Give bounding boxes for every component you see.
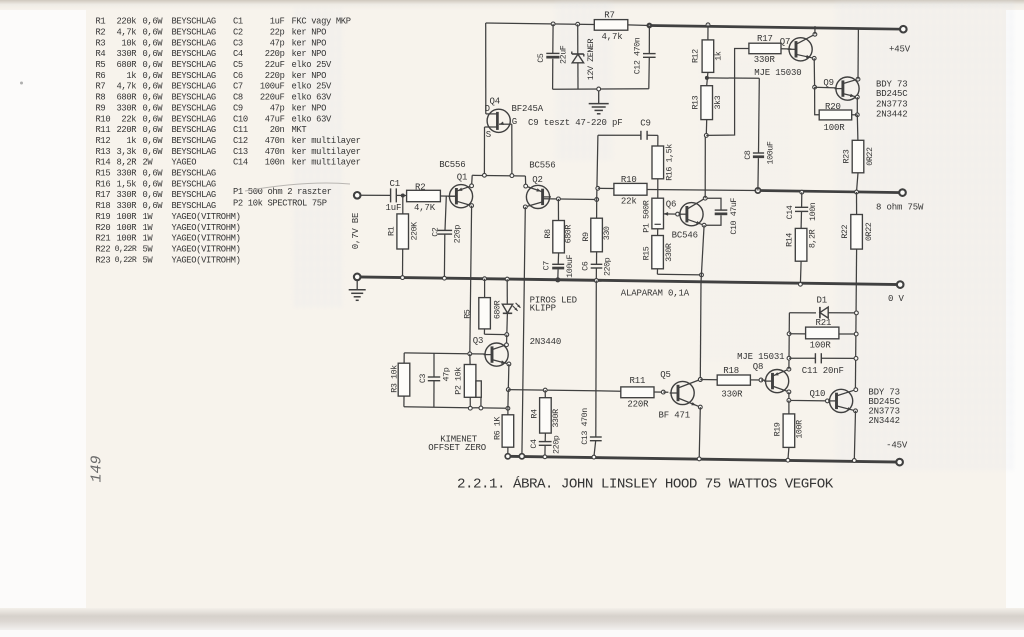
svg-text:C1: C1 — [390, 179, 401, 189]
svg-text:Q2: Q2 — [532, 175, 543, 185]
svg-text:elko 25V: elko 25V — [292, 60, 333, 70]
svg-text:R16 1,5k: R16 1,5k — [664, 144, 674, 181]
wire R5 bottom to LED node — [484, 333, 506, 335]
svg-text:R18: R18 — [723, 366, 739, 376]
svg-text:100R: 100R — [824, 123, 846, 133]
wire C9 to R16 — [647, 134, 658, 136]
transistor Q10 BDY73 — [830, 389, 853, 412]
resistor R5 — [484, 279, 486, 298]
junction R21 right — [854, 332, 858, 336]
svg-text:1,5k: 1,5k — [116, 179, 136, 189]
svg-text:220p: 220p — [551, 435, 561, 454]
svg-text:Q5: Q5 — [660, 370, 671, 380]
svg-text:R14: R14 — [784, 233, 794, 247]
potentiometer P1 500R — [652, 198, 664, 229]
svg-text:BEYSCHLAG: BEYSCHLAG — [172, 103, 216, 113]
diode D1 — [789, 312, 816, 314]
svg-text:R6 1K: R6 1K — [493, 416, 503, 440]
svg-text:BC546: BC546 — [672, 230, 698, 240]
svg-text:330R: 330R — [116, 201, 137, 211]
svg-text:elko 63V: elko 63V — [292, 93, 333, 103]
svg-text:BEYSCHLAG: BEYSCHLAG — [172, 136, 216, 146]
capacitor C13 — [595, 281, 598, 438]
junction R6 top — [506, 406, 510, 410]
svg-text:4,7k: 4,7k — [116, 27, 136, 37]
svg-text:8 ohm 75W: 8 ohm 75W — [876, 203, 924, 213]
svg-text:BEYSCHLAG: BEYSCHLAG — [172, 179, 216, 189]
ground terminal left — [354, 274, 361, 281]
resistor R22 — [856, 192, 858, 215]
svg-text:C8: C8 — [743, 150, 753, 160]
svg-text:330: 330 — [602, 226, 612, 240]
junction feedback node — [595, 198, 599, 202]
svg-text:BEYSCHLAG: BEYSCHLAG — [172, 93, 216, 103]
junction ground stub — [597, 87, 601, 91]
svg-text:BEYSCHLAG: BEYSCHLAG — [172, 114, 216, 124]
wire zener bottom — [553, 88, 649, 91]
svg-text:C8: C8 — [233, 93, 243, 103]
junction R12/R13/C8 — [705, 76, 709, 80]
junction R8 top — [557, 197, 561, 201]
capacitor C9 — [640, 131, 642, 140]
svg-text:100uF: 100uF — [765, 141, 775, 164]
svg-text:C9 teszt 47-220 pF: C9 teszt 47-220 pF — [528, 118, 623, 128]
svg-text:C12: C12 — [233, 136, 248, 146]
svg-text:D: D — [485, 104, 490, 114]
svg-text:R19: R19 — [772, 422, 782, 436]
wire Q3 emitter down — [507, 364, 510, 390]
svg-text:C12 470n: C12 470n — [632, 37, 642, 74]
resistor R7 — [594, 20, 628, 31]
svg-text:100n: 100n — [265, 158, 285, 168]
wire R17 left to R13 node — [706, 49, 749, 136]
svg-text:C2: C2 — [233, 27, 243, 37]
svg-text:2N3773: 2N3773 — [876, 99, 908, 109]
svg-text:5W: 5W — [143, 255, 154, 265]
svg-text:OFFSET ZERO: OFFSET ZERO — [428, 443, 486, 453]
svg-text:4,7k: 4,7k — [116, 82, 136, 92]
wire R13 bottom — [705, 120, 707, 136]
terminal -45V — [896, 459, 903, 466]
wire Q7 emitter down — [813, 58, 815, 87]
svg-text:22uF: 22uF — [559, 45, 569, 64]
svg-text:47uF: 47uF — [265, 114, 285, 124]
wire Q4 source down — [483, 127, 485, 175]
wire Q1 collector down to Q3 base — [470, 206, 472, 354]
svg-text:R2: R2 — [415, 182, 426, 192]
svg-text:R22: R22 — [840, 225, 850, 239]
junction R19/-45V rail — [786, 458, 790, 462]
svg-text:R10: R10 — [621, 175, 637, 185]
svg-text:0,6W: 0,6W — [143, 93, 164, 103]
junction zener top — [576, 22, 580, 26]
svg-text:R10: R10 — [96, 114, 111, 124]
svg-text:R6: R6 — [96, 71, 106, 81]
svg-text:330R: 330R — [116, 49, 137, 59]
svg-text:ker multilayer: ker multilayer — [292, 136, 361, 146]
junction C12/+45 rail — [647, 23, 653, 29]
svg-text:0,7V BE: 0,7V BE — [351, 213, 361, 249]
wire input to C1 — [361, 194, 391, 196]
svg-text:Q1: Q1 — [457, 172, 468, 182]
wire R7 to rail node — [628, 24, 650, 27]
resistor R8 — [557, 199, 559, 221]
svg-text:R13: R13 — [691, 95, 701, 109]
wire Q10 emitter to -45V rail — [854, 411, 855, 461]
svg-text:G: G — [512, 117, 517, 127]
svg-text:R4: R4 — [530, 409, 540, 419]
wire Q6 emitter down crossing 0V — [701, 225, 704, 282]
svg-text:1uF: 1uF — [270, 17, 285, 27]
junction C14/output rail — [800, 190, 804, 194]
svg-text:BEYSCHLAG: BEYSCHLAG — [172, 125, 216, 135]
junction Q3 emitter node — [506, 388, 510, 392]
ground symbol under input rail — [356, 280, 358, 289]
wire Q9 collector to +45 rail — [857, 29, 859, 80]
svg-text:330R: 330R — [116, 190, 137, 200]
svg-text:ker NPO: ker NPO — [292, 49, 327, 59]
svg-text:BEYSCHLAG: BEYSCHLAG — [172, 60, 216, 70]
svg-text:MJE 15030: MJE 15030 — [754, 68, 801, 78]
svg-text:R3: R3 — [96, 38, 106, 48]
svg-text:BDY 73: BDY 73 — [876, 79, 908, 89]
svg-text:R9: R9 — [581, 232, 591, 242]
svg-text:C4: C4 — [233, 49, 243, 59]
wire to C9 — [598, 134, 641, 136]
svg-text:BD245C: BD245C — [868, 397, 900, 407]
svg-text:BEYSCHLAG: BEYSCHLAG — [172, 38, 216, 48]
wire to Q1 emitter — [471, 175, 474, 186]
wire R11 to Q5 base — [654, 391, 663, 393]
svg-text:-45V: -45V — [886, 440, 908, 450]
svg-text:D1: D1 — [817, 295, 828, 305]
svg-text:C11 20nF: C11 20nF — [802, 366, 844, 376]
svg-text:R11: R11 — [630, 376, 646, 386]
junction R1/0V rail — [401, 276, 405, 280]
junction R14/0V rail — [799, 282, 803, 286]
svg-text:MJE 15031: MJE 15031 — [737, 352, 784, 362]
capacitor C7 — [557, 253, 559, 264]
junction LED/0V rail — [505, 277, 509, 281]
svg-text:R7: R7 — [604, 10, 615, 20]
resistor R16 — [652, 146, 664, 179]
svg-text:Q8: Q8 — [753, 362, 764, 372]
resistor R4 — [544, 390, 546, 398]
svg-text:C3: C3 — [418, 374, 428, 384]
svg-text:680R: 680R — [116, 93, 137, 103]
terminal +45V — [900, 26, 907, 33]
svg-text:220p: 220p — [602, 257, 612, 276]
svg-text:5W: 5W — [143, 244, 154, 254]
svg-text:P1 500R: P1 500R — [642, 200, 652, 232]
junction C4/-45V rail — [543, 455, 547, 459]
svg-text:R13: R13 — [96, 147, 111, 157]
svg-text:Q4: Q4 — [490, 96, 501, 106]
capacitor C8 — [758, 78, 761, 153]
svg-text:R12: R12 — [691, 49, 701, 63]
svg-text:330R: 330R — [721, 389, 743, 399]
wire to Q3 collector — [506, 335, 508, 345]
svg-text:0,6W: 0,6W — [143, 82, 164, 92]
capacitor C12 — [648, 26, 650, 54]
wire Q2 base to feedback node — [543, 198, 597, 201]
svg-text:ker NPO: ker NPO — [292, 38, 327, 48]
junction R5/0V rail — [483, 277, 487, 281]
svg-text:0R22: 0R22 — [865, 147, 875, 166]
wire down to R23 — [856, 115, 859, 141]
svg-text:BEYSCHLAG: BEYSCHLAG — [172, 17, 216, 27]
wire R17 to Q7 base — [781, 48, 791, 50]
wire Q3 base — [404, 353, 485, 354]
svg-text:KLIPP: KLIPP — [530, 303, 556, 313]
svg-text:R8: R8 — [543, 229, 553, 239]
svg-text:Q3: Q3 — [473, 336, 484, 346]
junction R6/-45V rail left end — [505, 454, 510, 459]
svg-text:R7: R7 — [96, 82, 106, 92]
svg-text:2N3440: 2N3440 — [530, 337, 562, 347]
capacitor C14 — [801, 192, 803, 207]
svg-text:1k: 1k — [126, 71, 136, 81]
transistor Q2 BC556 — [526, 185, 549, 208]
wire C1 to R2 — [396, 194, 406, 196]
wire down to R20 left — [815, 87, 820, 115]
svg-text:220R: 220R — [627, 399, 649, 409]
junction R20 right — [855, 113, 859, 117]
svg-text:R16: R16 — [96, 179, 111, 189]
svg-text:220k: 220k — [116, 17, 136, 27]
svg-text:C9: C9 — [233, 103, 243, 113]
wire Q3 emitter to R11 — [508, 390, 621, 392]
input terminal 0,7V BE — [354, 192, 361, 199]
terminal 8 ohm 75W — [899, 189, 906, 196]
capacitor C1 — [390, 188, 392, 202]
junction R1 top — [401, 194, 405, 198]
svg-text:22k: 22k — [621, 196, 637, 206]
svg-text:680R: 680R — [116, 60, 137, 70]
junction R4 top — [543, 388, 547, 392]
transistor Q4 BF245A (JFET) — [487, 109, 510, 132]
svg-text:R4: R4 — [96, 49, 106, 59]
svg-text:220R: 220R — [116, 125, 137, 135]
svg-text:Q7: Q7 — [780, 37, 791, 47]
show-through — [292, 0, 1014, 470]
svg-text:R21: R21 — [816, 318, 832, 328]
svg-text:0,6W: 0,6W — [143, 169, 164, 179]
svg-text:47p: 47p — [270, 103, 285, 113]
svg-text:2N3442: 2N3442 — [876, 110, 908, 120]
svg-text:10k: 10k — [121, 38, 136, 48]
transistor Q9 BDY73 — [836, 77, 859, 100]
capacitor C3 — [433, 353, 435, 377]
svg-text:BC556: BC556 — [439, 160, 465, 170]
svg-text:20n: 20n — [270, 125, 285, 135]
svg-text:ker NPO: ker NPO — [292, 71, 327, 81]
svg-text:BEYSCHLAG: BEYSCHLAG — [172, 169, 216, 179]
wire Q7 collector to +45 rail — [814, 26, 816, 34]
svg-text:R20: R20 — [825, 102, 841, 112]
svg-text:100R: 100R — [810, 340, 832, 350]
svg-text:22uF: 22uF — [265, 60, 285, 70]
svg-text:YAGEO(VITROHM): YAGEO(VITROHM) — [172, 234, 241, 244]
transistor Q7 MJE15030 — [789, 38, 812, 61]
junction D1/R22-Q10 line — [855, 311, 859, 315]
resistor R23 — [852, 140, 864, 173]
svg-text:R21: R21 — [96, 234, 111, 244]
wire Q4 gate down — [511, 124, 513, 175]
wire Q4 drain — [485, 23, 487, 114]
svg-text:C7: C7 — [542, 261, 552, 271]
svg-text:R11: R11 — [96, 125, 111, 135]
wire to Q2 emitter — [524, 176, 526, 186]
svg-text:0,6W: 0,6W — [143, 147, 164, 157]
svg-text:100R: 100R — [116, 212, 137, 222]
svg-text:ker NPO: ker NPO — [292, 103, 327, 113]
svg-text:MKT: MKT — [292, 125, 307, 135]
svg-text:4,7K: 4,7K — [414, 203, 436, 213]
svg-text:R15: R15 — [641, 246, 651, 260]
capacitor C10 — [707, 198, 721, 210]
svg-text:C7: C7 — [233, 82, 243, 92]
terminal 0V — [897, 281, 904, 288]
svg-text:2N3442: 2N3442 — [868, 416, 900, 426]
junction R19 top — [787, 399, 791, 403]
wire to Q9 base — [815, 86, 836, 89]
svg-text:C5: C5 — [233, 60, 243, 70]
svg-text:0,6W: 0,6W — [143, 27, 164, 37]
svg-text:C1: C1 — [233, 17, 243, 27]
svg-text:220uF: 220uF — [260, 93, 285, 103]
svg-text:100R: 100R — [116, 234, 137, 244]
wire R16 to P1 crossing output line — [657, 179, 659, 198]
svg-text:R8: R8 — [96, 93, 106, 103]
resistor R20 — [819, 110, 852, 120]
resistor R9 — [596, 200, 598, 219]
capacitor C4 — [544, 433, 546, 442]
resistor R2 — [407, 190, 441, 201]
svg-text:2.2.1. ÁBRA. JOHN LINSLEY HOOD: 2.2.1. ÁBRA. JOHN LINSLEY HOOD 75 WATTOS… — [457, 474, 834, 492]
svg-text:1uF: 1uF — [386, 203, 402, 213]
svg-text:C3: C3 — [233, 38, 243, 48]
svg-text:BEYSCHLAG: BEYSCHLAG — [172, 147, 216, 157]
svg-text:330R: 330R — [116, 103, 137, 113]
wire Q8 emitter to Q10 base — [789, 392, 828, 401]
svg-text:100R: 100R — [795, 420, 805, 439]
svg-text:ker NPO: ker NPO — [292, 27, 327, 37]
junction Q1 collector/P2/base — [468, 352, 472, 356]
svg-text:R2: R2 — [96, 27, 106, 37]
svg-text:YAGEO(VITROHM): YAGEO(VITROHM) — [172, 223, 241, 233]
svg-text:0R22: 0R22 — [864, 222, 874, 241]
svg-text:BEYSCHLAG: BEYSCHLAG — [172, 49, 216, 59]
svg-text:R22: R22 — [96, 244, 111, 254]
transistor Q3 2N3440 — [485, 343, 508, 366]
svg-text:100uF: 100uF — [565, 255, 575, 278]
svg-text:220p: 220p — [453, 225, 463, 244]
svg-text:1k: 1k — [126, 136, 136, 146]
svg-text:470n: 470n — [265, 147, 285, 157]
svg-text:S: S — [486, 130, 491, 140]
svg-text:YAGEO(VITROHM): YAGEO(VITROHM) — [172, 255, 241, 265]
svg-text:22p: 22p — [270, 27, 285, 37]
svg-text:ker multilayer: ker multilayer — [292, 147, 361, 157]
junction R10 left — [596, 186, 600, 190]
svg-text:1W: 1W — [143, 223, 154, 233]
svg-text:P1 500 ohm 2 raszter: P1 500 ohm 2 raszter — [233, 187, 332, 197]
svg-text:BDY 73: BDY 73 — [868, 387, 900, 397]
junction Q5 emitter/-45V rail — [697, 457, 701, 461]
junction P2 wiper/bottom wire — [479, 406, 483, 410]
wire R23 to output rail — [857, 173, 859, 192]
svg-text:R17: R17 — [757, 34, 773, 44]
wire Q5 emitter to -45V rail — [699, 407, 700, 459]
svg-text:47p: 47p — [270, 38, 285, 48]
wire R15 to bias line — [657, 273, 701, 276]
resistor R19 — [788, 400, 790, 414]
resistor R14 — [795, 228, 807, 261]
junction Q10 emitter/-45V rail — [852, 459, 856, 463]
svg-text:C13 470n: C13 470n — [580, 408, 590, 445]
ground symbol zener circuit — [598, 89, 600, 103]
svg-text:BEYSCHLAG: BEYSCHLAG — [172, 190, 216, 200]
svg-text:8,2R: 8,2R — [116, 158, 137, 168]
svg-text:0,22R: 0,22R — [115, 256, 137, 265]
svg-text:0 V: 0 V — [888, 294, 905, 304]
resistor R18 — [717, 375, 750, 385]
svg-text:0,6W: 0,6W — [143, 114, 164, 124]
wire down to R6 — [507, 390, 509, 409]
svg-text:4,7k: 4,7k — [602, 32, 623, 42]
transistor Q1 BC556 — [449, 185, 472, 208]
capacitor C5 — [552, 24, 554, 54]
wire offset network bottom — [404, 407, 508, 409]
svg-text:Q10: Q10 — [810, 389, 826, 399]
zener diode 12V — [577, 24, 579, 54]
svg-text:YAGEO(VITROHM): YAGEO(VITROHM) — [172, 212, 241, 222]
svg-text:100R: 100R — [116, 223, 137, 233]
svg-text:C6: C6 — [581, 261, 591, 271]
junction Q3 collector node — [505, 333, 509, 337]
junction Q4 source / emitters — [483, 173, 487, 177]
svg-text:0,6W: 0,6W — [143, 201, 164, 211]
svg-text:R20: R20 — [96, 223, 111, 233]
svg-text:1W: 1W — [143, 212, 154, 222]
resistor R12 — [707, 25, 709, 40]
svg-text:YAGEO: YAGEO — [172, 158, 197, 168]
svg-text:1W: 1W — [143, 234, 154, 244]
svg-text:C5: C5 — [536, 53, 546, 63]
resistor R11 — [621, 387, 654, 398]
svg-text:R15: R15 — [96, 169, 111, 179]
junction Q2 collector/-45V rail — [519, 454, 524, 459]
svg-text:220p: 220p — [265, 71, 285, 81]
wire P1 to R15 — [657, 229, 659, 236]
svg-text:R3 10k: R3 10k — [389, 365, 399, 393]
wire feedback node up to C9 — [597, 135, 598, 199]
potentiometer P2 10k — [469, 354, 471, 365]
svg-text:0,6W: 0,6W — [143, 49, 164, 59]
svg-text:330R: 330R — [551, 409, 561, 428]
svg-text:149: 149 — [89, 455, 106, 482]
junction C5 top — [551, 22, 555, 26]
svg-text:2W: 2W — [143, 158, 154, 168]
svg-text:220K: 220K — [410, 221, 420, 241]
junction C11 right — [854, 357, 858, 361]
svg-text:R9: R9 — [96, 103, 106, 113]
junction C13/-45V rail — [592, 455, 596, 459]
wire LTP emitters — [472, 174, 525, 177]
svg-text:BF 471: BF 471 — [659, 411, 691, 421]
wire R15 bottom — [656, 269, 658, 275]
